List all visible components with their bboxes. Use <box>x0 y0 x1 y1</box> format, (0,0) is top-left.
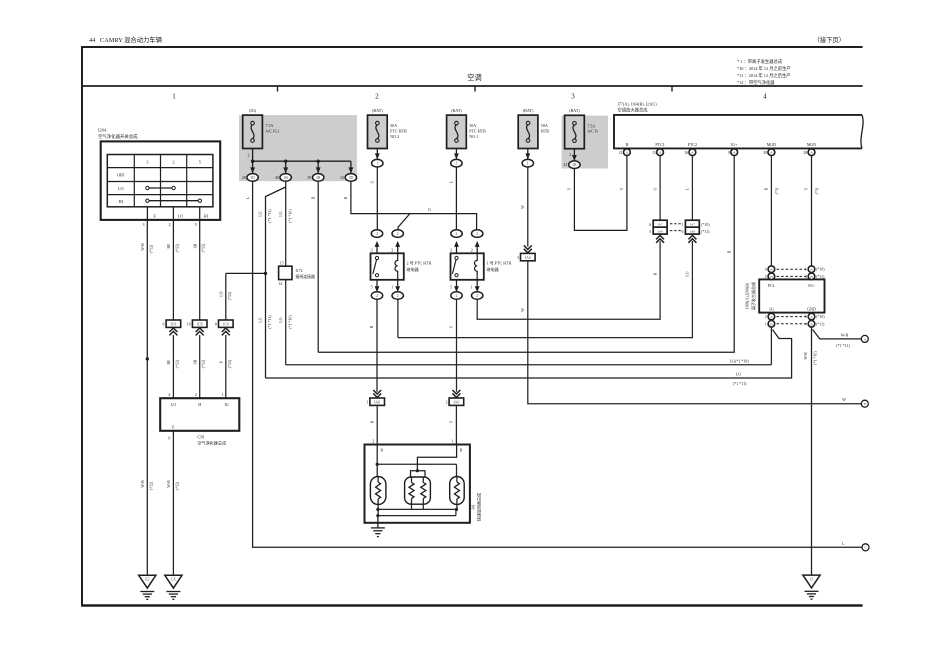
wire B relay2 to splice IA6 <box>376 299 378 392</box>
svg-text:50A: 50A <box>469 123 476 128</box>
svg-text:PTC HTR: PTC HTR <box>390 129 407 134</box>
ion bottom pin circles GND <box>808 313 815 320</box>
svg-text:50A: 50A <box>390 123 397 128</box>
svg-text:(*12): (*12) <box>175 481 179 490</box>
svg-text:5: 5 <box>450 284 452 289</box>
wire BE switch pin2 to IC8 <box>172 220 174 320</box>
svg-text:Y: Y <box>568 187 572 190</box>
svg-text:16: 16 <box>684 151 688 155</box>
gray zone fuse A/C B <box>562 116 608 169</box>
wire LG fuse1 40 split <box>285 181 287 266</box>
svg-text:15: 15 <box>652 151 656 155</box>
svg-text:LG: LG <box>279 317 283 322</box>
svg-text:CE: CE <box>171 578 177 582</box>
svg-text:(*1): (*1) <box>815 187 819 194</box>
svg-text:(*10): (*10) <box>701 223 710 227</box>
svg-text:(*10): (*10) <box>816 315 825 319</box>
C58 air purifier assembly box <box>160 398 239 431</box>
wire G fuse PTC2 to relay2 <box>376 167 378 230</box>
frame border <box>82 46 863 48</box>
svg-text:NO.2: NO.2 <box>390 134 399 139</box>
svg-text:PTC HTR: PTC HTR <box>469 129 486 134</box>
svg-text:7.5A: 7.5A <box>265 123 273 128</box>
svg-text:(IG): (IG) <box>249 108 257 113</box>
quick heater assembly I41 box <box>365 445 470 523</box>
svg-text:3D: 3D <box>349 176 354 180</box>
switch contacts <box>146 186 149 189</box>
svg-text:3: 3 <box>450 247 452 252</box>
svg-text:1: 1 <box>366 400 368 405</box>
svg-text:IG: IG <box>224 402 228 407</box>
svg-text:IC8: IC8 <box>223 322 229 326</box>
svg-text:(BAT): (BAT) <box>372 108 383 113</box>
svg-text:Y: Y <box>620 187 624 190</box>
svg-text:IC8: IC8 <box>171 322 177 326</box>
connector IC8 pin6 <box>166 320 181 327</box>
svg-text:R: R <box>653 272 657 275</box>
ground CE <box>165 575 182 588</box>
svg-text:B: B <box>381 449 384 453</box>
svg-text:(*1): (*1) <box>775 187 779 194</box>
svg-text:IA6: IA6 <box>374 400 380 404</box>
terminal B <box>861 400 868 407</box>
svg-text:B: B <box>727 250 731 253</box>
svg-text:5: 5 <box>199 159 201 164</box>
wire Y fuse A/C B to amplifier pin B <box>574 155 627 230</box>
svg-text:2: 2 <box>456 294 458 298</box>
svg-text:(*1 *10): (*1 *10) <box>814 351 818 365</box>
svg-text:1G: 1G <box>769 306 774 311</box>
svg-text:2: 2 <box>765 315 767 319</box>
svg-text:W-B: W-B <box>804 352 808 360</box>
svg-text:4: 4 <box>168 392 170 397</box>
svg-text:2: 2 <box>397 294 399 298</box>
svg-text:BE: BE <box>167 359 171 365</box>
svg-text:7.5A: 7.5A <box>587 123 595 128</box>
svg-text:2: 2 <box>569 152 571 157</box>
svg-text:(*11): (*11) <box>701 230 710 234</box>
svg-text:W: W <box>521 308 525 312</box>
heater element right <box>450 477 465 505</box>
svg-text:2: 2 <box>456 232 458 236</box>
svg-text:H: H <box>198 402 201 407</box>
svg-text:2: 2 <box>446 400 448 405</box>
svg-text:6: 6 <box>168 436 170 441</box>
svg-text:2: 2 <box>376 232 378 236</box>
wire LG(*1 *11) ion 1G via diagonal <box>266 330 792 379</box>
wire BE IC8 to C58 pin4 <box>172 335 174 398</box>
svg-text:BE: BE <box>167 243 171 249</box>
ground E2 <box>139 575 156 588</box>
svg-text:C58: C58 <box>197 434 204 439</box>
ground IJ <box>803 575 820 588</box>
svg-text:3: 3 <box>517 255 519 260</box>
svg-text:继电器: 继电器 <box>487 266 499 272</box>
connector stack IA7/IA8 right <box>685 220 699 234</box>
wire W-B(*1 *11) ion GND to terminal A <box>813 330 862 339</box>
svg-text:W: W <box>521 205 525 209</box>
svg-text:(*11): (*11) <box>816 322 825 326</box>
svg-text:LG: LG <box>258 317 262 322</box>
svg-text:接线连接器: 接线连接器 <box>296 274 316 279</box>
svg-text:HTR: HTR <box>541 129 549 134</box>
svg-text:3D: 3D <box>250 176 255 180</box>
svg-text:R: R <box>344 196 348 199</box>
svg-text:G: G <box>653 187 657 190</box>
svg-text:2: 2 <box>248 153 250 158</box>
resistor zigzags <box>376 482 381 499</box>
wire W-B C58 pinE to ground CE <box>172 431 174 576</box>
svg-text:2: 2 <box>169 222 171 227</box>
svg-text:2B: 2B <box>572 163 577 167</box>
svg-text:A/C IG1: A/C IG1 <box>265 129 279 134</box>
svg-text:(*12): (*12) <box>202 359 206 368</box>
svg-text:IA6: IA6 <box>525 256 531 260</box>
svg-text:LG: LG <box>258 211 262 216</box>
svg-text:1: 1 <box>471 284 473 289</box>
fuse1 output ovals 3D 3B 3B 3D <box>247 174 258 182</box>
svg-text:W-B: W-B <box>141 243 145 251</box>
svg-text:4: 4 <box>765 268 767 272</box>
svg-text:(*1 *11): (*1 *11) <box>268 209 272 223</box>
relay No.2 PTC HTR <box>371 230 382 238</box>
svg-text:LO: LO <box>118 186 124 191</box>
ion top pin circles PCL <box>768 266 775 273</box>
svg-text:1 号 PTC HTR: 1 号 PTC HTR <box>487 260 512 266</box>
svg-text:W-B: W-B <box>841 332 849 337</box>
svg-text:2 号 PTC HTR: 2 号 PTC HTR <box>407 260 432 266</box>
svg-text:5: 5 <box>371 284 373 289</box>
svg-text:HI: HI <box>119 199 124 204</box>
splice dot on W-B wire <box>146 357 149 360</box>
svg-text:(*11): (*11) <box>816 275 825 279</box>
svg-text:SB: SB <box>193 359 197 364</box>
wire W-B(*1 *10) ion GND to ground IJ <box>811 327 813 575</box>
svg-text:空调: 空调 <box>467 73 481 82</box>
svg-text:1: 1 <box>376 162 378 166</box>
terminal C <box>862 544 869 551</box>
svg-text:6: 6 <box>681 230 683 234</box>
svg-text:1: 1 <box>527 162 529 166</box>
heater internal wiring <box>376 445 378 477</box>
svg-text:Y: Y <box>805 187 809 190</box>
svg-text:B: B <box>460 449 463 453</box>
svg-text:2: 2 <box>375 93 379 101</box>
svg-text:21: 21 <box>619 151 623 155</box>
svg-text:空调放大器总成: 空调放大器总成 <box>618 107 649 114</box>
svg-text:空气净化器总成: 空气净化器总成 <box>197 439 226 445</box>
svg-text:16: 16 <box>187 322 191 327</box>
heater element middle <box>405 477 431 504</box>
svg-text:9: 9 <box>728 151 730 155</box>
svg-text:离子发生器总成: 离子发生器总成 <box>750 282 756 310</box>
svg-text:PTC2: PTC2 <box>688 142 697 147</box>
svg-text:4: 4 <box>805 322 807 326</box>
svg-text:E2: E2 <box>145 578 149 582</box>
svg-text:3: 3 <box>146 159 148 164</box>
svg-text:LG: LG <box>736 372 741 377</box>
wire B amp IG to fuse1 oval39 <box>318 155 734 352</box>
wire LG(*1 *10) ion 1G to junction I172 <box>770 327 772 365</box>
svg-text:(*1 *10): (*1 *10) <box>288 315 292 329</box>
svg-text:(*12): (*12) <box>202 243 206 252</box>
svg-text:IA6: IA6 <box>453 400 459 404</box>
svg-text:(*12): (*12) <box>175 243 179 252</box>
svg-text:3B: 3B <box>284 176 289 180</box>
svg-text:6: 6 <box>163 322 165 327</box>
svg-text:2: 2 <box>372 438 374 443</box>
svg-text:40: 40 <box>275 175 279 180</box>
svg-text:G: G <box>428 207 431 212</box>
svg-text:3B: 3B <box>316 176 321 180</box>
svg-text:W: W <box>842 397 846 402</box>
svg-text:A/C B: A/C B <box>587 129 598 134</box>
gray zone fuse A/C IG1 <box>239 115 357 181</box>
svg-text:* 1 ：带离子发生器总成: * 1 ：带离子发生器总成 <box>737 58 783 65</box>
svg-text:(*1 *10): (*1 *10) <box>288 209 292 223</box>
svg-text:Y: Y <box>450 420 454 423</box>
svg-text:(*12): (*12) <box>175 359 179 368</box>
svg-text:3: 3 <box>805 275 807 279</box>
svg-text:B: B <box>626 142 629 147</box>
svg-text:OFF: OFF <box>117 173 125 178</box>
junction connector I172 <box>279 266 292 279</box>
svg-text:2: 2 <box>765 275 767 279</box>
wire L fuse1 28 to terminal C <box>253 181 862 547</box>
svg-text:*12 ：带空气净化器: *12 ：带空气净化器 <box>737 79 775 86</box>
wire R fuse1 32 to relay coils <box>351 181 477 230</box>
svg-text:快速加热器总成: 快速加热器总成 <box>476 493 482 521</box>
wire P IC8 to C58 pin1 <box>225 335 227 398</box>
wire SB switch pin5 to IC8 <box>199 220 201 320</box>
ion bottom pin circles 1G <box>768 313 775 320</box>
wire LO tap from LG line to IC8 <box>226 272 266 274</box>
svg-text:继电器: 继电器 <box>407 266 419 272</box>
svg-text:空气净化器开关总成: 空气净化器开关总成 <box>98 133 138 140</box>
connector stack IA7/IA8 left <box>653 220 667 234</box>
svg-text:IA7: IA7 <box>690 223 696 227</box>
svg-text:IA8: IA8 <box>657 230 663 234</box>
svg-text:GND: GND <box>807 306 816 311</box>
svg-text:2: 2 <box>476 232 478 236</box>
svg-text:3: 3 <box>571 93 575 101</box>
svg-text:R: R <box>370 420 374 423</box>
wire Y(*1) amp MGN to ion generator IG+ <box>811 155 813 266</box>
svg-text:1: 1 <box>222 392 224 397</box>
svg-text:(*12): (*12) <box>149 244 153 253</box>
svg-text:W-B: W-B <box>141 480 145 488</box>
wire R(*1) amp MGD to ion generator PCL <box>770 155 772 266</box>
svg-text:(BAT): (BAT) <box>523 108 534 113</box>
relay1 coil return wire <box>476 299 478 319</box>
svg-text:IG+: IG+ <box>731 142 738 147</box>
svg-text:50A: 50A <box>541 123 548 128</box>
svg-text:(*1 *11): (*1 *11) <box>836 343 850 348</box>
svg-text:28: 28 <box>803 151 807 155</box>
terminal A <box>861 335 868 342</box>
svg-text:2: 2 <box>397 232 399 236</box>
svg-text:2: 2 <box>391 247 393 252</box>
svg-text:5: 5 <box>649 230 651 234</box>
ion top pin circles IG+ <box>808 266 815 273</box>
svg-text:14: 14 <box>278 282 282 286</box>
svg-text:3: 3 <box>371 247 373 252</box>
svg-text:2: 2 <box>471 247 473 252</box>
svg-text:SB: SB <box>193 243 197 248</box>
svg-text:28: 28 <box>242 175 246 180</box>
wire L amp PTC2 to IA7 right <box>691 155 693 220</box>
svg-text:*10 ：2014 年 12 月之前生产: *10 ：2014 年 12 月之前生产 <box>737 65 791 72</box>
svg-text:1: 1 <box>391 284 393 289</box>
svg-text:(BAT): (BAT) <box>569 108 580 113</box>
svg-text:B: B <box>311 196 315 199</box>
svg-text:6: 6 <box>649 223 651 227</box>
svg-text:I172: I172 <box>296 269 303 273</box>
splice IA6 pin1 <box>373 393 381 397</box>
svg-text:I41: I41 <box>470 504 475 509</box>
wire G amp PTC1 to IA7 <box>659 155 661 220</box>
svg-text:2: 2 <box>195 392 197 397</box>
svg-text:Y: Y <box>450 325 454 328</box>
svg-text:8: 8 <box>215 322 217 327</box>
svg-text:LG: LG <box>686 271 690 276</box>
svg-text:LO: LO <box>178 214 183 219</box>
svg-text:PCL: PCL <box>768 283 776 288</box>
svg-text:（接下页）: （接下页） <box>814 35 845 44</box>
svg-text:(*12): (*12) <box>228 291 232 300</box>
svg-text:LO: LO <box>171 402 176 407</box>
heater ground <box>377 516 379 528</box>
wire LG from IA8 right to relay2 coil <box>398 241 693 338</box>
dashes between IA7 IA8 stacks <box>670 223 683 225</box>
svg-text:44 CAMRY 混合动力车辆: 44 CAMRY 混合动力车辆 <box>89 35 162 44</box>
svg-text:(*1 *11): (*1 *11) <box>733 381 747 386</box>
svg-text:B: B <box>370 325 374 328</box>
svg-text:LG: LG <box>279 211 283 216</box>
svg-text:1: 1 <box>681 223 683 227</box>
wire Y relay1 to splice IA6 <box>456 299 458 392</box>
wire SB IC8 to C58 pin2 <box>199 335 201 398</box>
splice IA6 pin2 <box>452 393 460 397</box>
svg-text:1: 1 <box>452 438 454 443</box>
svg-text:2: 2 <box>376 294 378 298</box>
svg-text:1: 1 <box>172 93 176 101</box>
svg-text:(*12): (*12) <box>149 481 153 490</box>
svg-text:39: 39 <box>307 175 311 180</box>
svg-text:MGN: MGN <box>807 142 816 147</box>
heater bottom rails <box>377 505 379 516</box>
svg-text:32: 32 <box>340 175 344 180</box>
svg-text:IA7: IA7 <box>657 223 663 227</box>
svg-text:MGD: MGD <box>767 142 776 147</box>
svg-text:(*12): (*12) <box>228 359 232 368</box>
svg-text:3: 3 <box>143 222 145 227</box>
svg-text:2: 2 <box>476 294 478 298</box>
svg-text:R: R <box>765 187 769 190</box>
svg-text:15: 15 <box>280 262 284 266</box>
connector IC8 pin8 <box>219 320 234 327</box>
svg-text:1: 1 <box>456 162 458 166</box>
svg-text:4: 4 <box>763 93 767 101</box>
svg-text:G: G <box>371 180 375 183</box>
svg-text:2: 2 <box>173 159 175 164</box>
wire W fuse HTR to terminal B <box>527 167 529 247</box>
fuse1 bus wire <box>252 149 254 162</box>
svg-text:NO.1: NO.1 <box>469 134 478 139</box>
wire W-B from switch pin3 to ground E2 <box>146 220 148 575</box>
svg-text:IA8: IA8 <box>690 230 696 234</box>
svg-text:21: 21 <box>564 162 568 167</box>
svg-text:39: 39 <box>763 151 767 155</box>
svg-text:*11 ：2014 年 12 月之后生产: *11 ：2014 年 12 月之后生产 <box>737 72 791 79</box>
svg-text:HI: HI <box>204 214 209 219</box>
connector IC8 pin16 <box>192 320 207 327</box>
switch pin stubs <box>146 207 148 220</box>
svg-text:(*1 *11): (*1 *11) <box>268 315 272 329</box>
svg-text:W-B: W-B <box>167 480 171 488</box>
heater element left <box>370 477 386 505</box>
svg-text:LO: LO <box>219 291 223 296</box>
svg-text:1: 1 <box>765 322 767 326</box>
wire R from IA8 to relay1 coil <box>477 241 660 319</box>
wire L fuse PTC1 to relay1 <box>455 167 457 230</box>
svg-text:(BAT): (BAT) <box>451 108 462 113</box>
relay2 coil return wire <box>397 299 399 337</box>
svg-text:PTC1: PTC1 <box>655 142 664 147</box>
svg-text:IG+: IG+ <box>808 283 815 288</box>
svg-text:I204: I204 <box>98 128 107 133</box>
svg-text:5: 5 <box>195 222 197 227</box>
relay No.1 PTC HTR <box>451 230 462 238</box>
svg-text:IC8: IC8 <box>197 322 203 326</box>
svg-text:(*10): (*10) <box>816 268 825 272</box>
svg-text:LG(*1 *10): LG(*1 *10) <box>730 358 750 363</box>
